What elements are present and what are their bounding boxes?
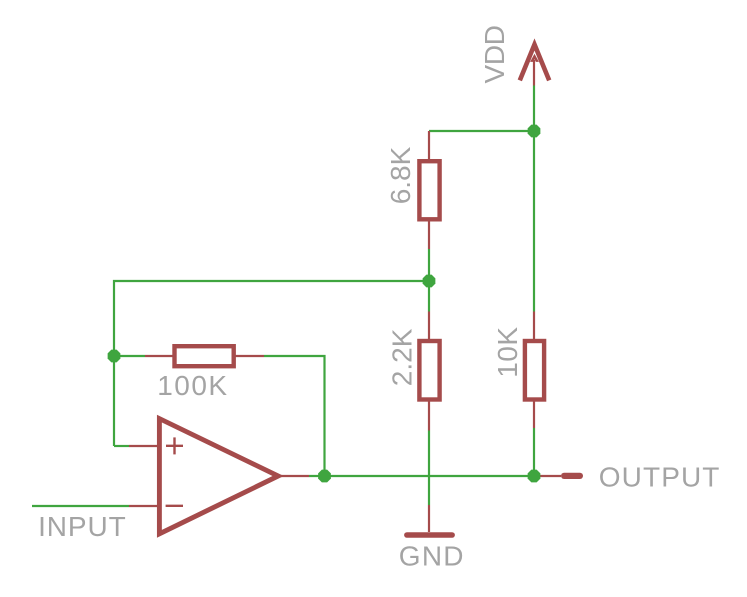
pin: 6.8K bottom pin bbox=[428, 220, 430, 249]
svg-text:100K: 100K bbox=[157, 370, 228, 401]
wire: 6.8K bottom to mid junction bbox=[428, 249, 430, 281]
resistor 10K body bbox=[525, 341, 544, 400]
wire: output net horizontal bbox=[309, 475, 537, 477]
svg-text:VDD: VDD bbox=[479, 25, 510, 83]
wire: VDD rail down to 10K top pin bbox=[533, 131, 535, 312]
pin: VDD symbol pin bbox=[533, 60, 535, 86]
op-amp triangle bbox=[159, 419, 278, 534]
wire: mid junction to 2.2K top pin bbox=[428, 281, 430, 312]
junction: output / 10K node bbox=[528, 470, 541, 483]
pin: op-amp inverting input pin bbox=[129, 505, 161, 507]
pin: 2.2K bottom pin bbox=[428, 400, 430, 431]
op-amp minus marking bbox=[166, 505, 183, 507]
pin: 10K top pin bbox=[533, 312, 535, 342]
OUTPUT port capsule bbox=[561, 473, 583, 479]
svg-text:OUTPUT: OUTPUT bbox=[599, 461, 721, 492]
svg-text:INPUT: INPUT bbox=[38, 511, 127, 542]
pin: OUTPUT port pin bbox=[537, 475, 561, 477]
svg-text:GND: GND bbox=[399, 540, 465, 571]
pin: 10K bottom pin bbox=[533, 400, 535, 428]
pin: op-amp non-inverting input pin bbox=[129, 445, 161, 447]
pin: op-amp output pin bbox=[281, 475, 309, 477]
pin: 100K right pin bbox=[234, 355, 264, 357]
ground symbol bar bbox=[407, 532, 452, 538]
wire: 100K right side down to output node bbox=[264, 356, 325, 476]
junction: VDD rail node bbox=[528, 125, 541, 138]
op-amp plus marking bbox=[166, 437, 183, 454]
junction: op-amp output / feedback node bbox=[318, 470, 331, 483]
svg-text:10K: 10K bbox=[492, 326, 523, 377]
wire: INPUT net bbox=[32, 505, 129, 507]
junction: 6.8K / 2.2K / feedback node bbox=[423, 275, 436, 288]
pin: 2.2K top pin bbox=[428, 312, 430, 342]
wire: junction A to 100K left pin bbox=[114, 355, 145, 357]
pin: 100K left pin bbox=[145, 355, 175, 357]
wire: VDD symbol to top rail bbox=[533, 86, 535, 132]
resistor 6.8K body bbox=[419, 161, 439, 219]
junction: feedback / 100K left node bbox=[108, 350, 121, 363]
wire: op-amp non-inverting input stub bbox=[114, 445, 129, 447]
pin: GND symbol pin bbox=[428, 505, 430, 532]
wire: VDD net top horizontal bbox=[429, 130, 534, 132]
resistor 100K body bbox=[175, 346, 234, 366]
VDD supply symbol arrow bbox=[520, 45, 549, 81]
wire: 2.2K bottom down to GND pin bbox=[428, 431, 430, 506]
wire: feedback net left vertical + top horizontal bbox=[114, 281, 429, 446]
svg-text:2.2K: 2.2K bbox=[386, 328, 417, 386]
svg-text:6.8K: 6.8K bbox=[385, 146, 416, 204]
pin: 6.8K top pin bbox=[428, 131, 430, 161]
resistor 2.2K body bbox=[419, 341, 439, 400]
wire: 10K bottom to output node bbox=[533, 428, 535, 476]
